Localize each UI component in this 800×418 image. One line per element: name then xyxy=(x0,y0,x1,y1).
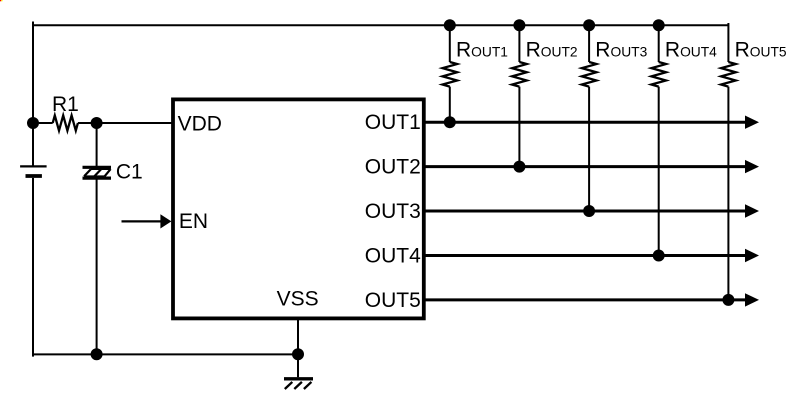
wire: OUT3 output line xyxy=(425,204,759,217)
resistor ROUT4 xyxy=(651,25,666,255)
svg-text:ROUT4: ROUT4 xyxy=(665,38,717,61)
svg-text:ROUT2: ROUT2 xyxy=(526,38,578,61)
svg-text:ROUT5: ROUT5 xyxy=(735,38,787,61)
node: top rail tap 3 xyxy=(583,19,595,31)
wire: left vertical supply wire xyxy=(32,22,34,167)
resistor ROUT5 xyxy=(721,23,736,300)
wire: node B down to C1 xyxy=(96,123,98,166)
node: OUT5/ROUT5 junction xyxy=(722,294,734,306)
wire: OUT2 output line xyxy=(425,160,759,173)
node: OUT3/ROUT3 junction xyxy=(583,205,595,217)
resistor ROUT1 xyxy=(443,25,458,122)
ground xyxy=(284,354,313,389)
svg-text:C1: C1 xyxy=(116,161,143,184)
svg-text:OUT5: OUT5 xyxy=(365,289,421,312)
node: top rail tap 1 xyxy=(444,19,456,31)
svg-text:VDD: VDD xyxy=(178,112,222,135)
node A: supply/R1 junction xyxy=(27,117,39,129)
node: OUT2/ROUT2 junction xyxy=(513,161,525,173)
resistor ROUT3 xyxy=(582,25,597,211)
svg-text:ROUT1: ROUT1 xyxy=(456,38,508,61)
wire: bottom ground rail xyxy=(33,353,298,355)
svg-text:R1: R1 xyxy=(52,93,79,116)
svg-text:OUT3: OUT3 xyxy=(365,200,421,223)
svg-text:ROUT3: ROUT3 xyxy=(595,38,647,61)
resistor ROUT2 xyxy=(512,25,527,166)
corner artifact mark xyxy=(0,0,3,1)
resistor R1 xyxy=(39,115,78,130)
wire: C1 to bottom rail xyxy=(96,180,98,355)
battery B1 xyxy=(20,166,46,176)
wire: OUT4 output line xyxy=(425,249,759,262)
node: top rail tap 4 xyxy=(653,19,665,31)
node C: C1/bottom rail junction xyxy=(91,348,103,360)
svg-text:OUT4: OUT4 xyxy=(365,245,421,268)
wire: battery negative to bottom rail xyxy=(32,178,34,357)
svg-text:VSS: VSS xyxy=(277,287,319,310)
svg-text:OUT2: OUT2 xyxy=(365,156,421,179)
node B: VDD/C1 junction xyxy=(91,117,103,129)
wire: R1 to VDD pin xyxy=(78,122,173,124)
node D: VSS junction xyxy=(292,348,304,360)
wire: OUT5 output line xyxy=(425,293,759,306)
IC U1 body xyxy=(173,99,424,318)
capacitor C1 xyxy=(83,167,112,178)
svg-text:OUT1: OUT1 xyxy=(365,111,421,134)
wire: VSS pin to bottom rail xyxy=(297,318,299,354)
svg-text:EN: EN xyxy=(179,210,208,233)
node: OUT1/ROUT1 junction xyxy=(444,116,456,128)
node: top rail tap 2 xyxy=(513,19,525,31)
node: OUT4/ROUT4 junction xyxy=(653,250,665,262)
EN input arrow xyxy=(122,214,172,228)
wire: OUT1 output line xyxy=(425,116,759,129)
wire: top supply rail xyxy=(33,24,728,26)
